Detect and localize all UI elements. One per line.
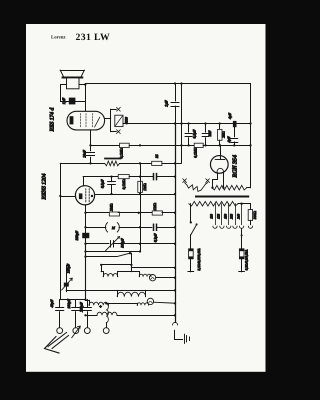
svg-text:240: 240 xyxy=(236,214,240,219)
svg-text:0,5µF: 0,5µF xyxy=(101,179,105,189)
svg-text:0,5µF: 0,5µF xyxy=(192,129,196,139)
svg-text:2kΩ: 2kΩ xyxy=(222,131,226,137)
svg-text:231 LW: 231 LW xyxy=(76,32,111,43)
svg-text:0,1MΩ: 0,1MΩ xyxy=(120,148,124,158)
svg-text:RES 174 d: RES 174 d xyxy=(50,107,56,132)
svg-text:350pF: 350pF xyxy=(75,230,79,240)
svg-text:RENS 1204: RENS 1204 xyxy=(42,173,48,200)
svg-text:40µF: 40µF xyxy=(50,299,54,308)
svg-text:100pF: 100pF xyxy=(67,263,71,273)
svg-text:10nF: 10nF xyxy=(83,149,87,157)
svg-text:0,2µF: 0,2µF xyxy=(154,233,158,243)
svg-text:250µF: 250µF xyxy=(79,301,83,311)
svg-text:500pF: 500pF xyxy=(120,238,124,248)
svg-text:4µF: 4µF xyxy=(228,112,232,119)
svg-text:300Ω: 300Ω xyxy=(253,211,257,219)
svg-text:RGN 354: RGN 354 xyxy=(233,155,239,179)
svg-text:+: + xyxy=(99,304,102,309)
svg-text:110: 110 xyxy=(210,214,214,219)
svg-text:Lorenz: Lorenz xyxy=(51,35,66,41)
svg-text:0,1MΩ: 0,1MΩ xyxy=(194,147,198,157)
svg-text:0,1MΩ: 0,1MΩ xyxy=(122,179,126,189)
svg-text:5nF: 5nF xyxy=(208,130,212,137)
svg-text:125: 125 xyxy=(217,214,221,219)
svg-text:4µF: 4µF xyxy=(227,136,231,143)
svg-text:225: 225 xyxy=(230,214,234,219)
svg-text:35: 35 xyxy=(155,154,159,158)
svg-text:150: 150 xyxy=(223,214,227,219)
svg-text:1MΩ: 1MΩ xyxy=(153,203,157,211)
svg-text:1MΩ: 1MΩ xyxy=(143,183,147,191)
svg-text:8,2Ω/0,2/0,15A: 8,2Ω/0,2/0,15A xyxy=(245,249,249,270)
svg-text:2MΩ: 2MΩ xyxy=(110,203,114,211)
svg-text:M: M xyxy=(111,226,115,230)
svg-text:5,1Ω/0,27/0,15A: 5,1Ω/0,27/0,15A xyxy=(197,247,201,270)
svg-text:1µF: 1µF xyxy=(165,100,169,107)
svg-text:1µF: 1µF xyxy=(62,97,66,104)
svg-text:100pF: 100pF xyxy=(67,298,71,308)
